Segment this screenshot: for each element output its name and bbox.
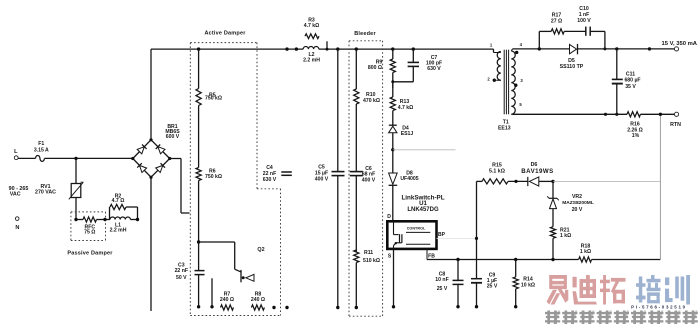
svg-text:Passive Damper: Passive Damper [67,251,113,257]
diode D4 ES1J (pointing up) [389,124,397,126]
svg-text:F1: F1 [38,141,44,147]
wire source pin down [393,249,395,307]
svg-text:750 kΩ: 750 kΩ [205,174,222,180]
svg-text:Bleeder: Bleeder [354,31,376,37]
capacitor C3 22nF 50V [195,270,205,272]
svg-text:D: D [387,214,391,220]
svg-text:1 kΩ: 1 kΩ [580,249,591,255]
capacitor C8 10nF 25V [456,258,459,261]
svg-text:510 kΩ: 510 kΩ [363,258,380,264]
node L/RV1 [74,157,77,160]
node RV1/RFC [74,218,77,221]
transistor Q2 [199,241,235,243]
wire Q2 emitter stub [211,278,213,307]
svg-text:EE13: EE13 [498,125,511,131]
wire main top rail (primary side) [151,48,303,50]
wire drain to transformer (faint) [393,149,456,151]
wire feedback to sense (faint) [553,180,660,182]
svg-text:VR2: VR2 [572,194,582,200]
svg-text:240 Ω: 240 Ω [251,297,265,303]
svg-text:4.7 kΩ: 4.7 kΩ [304,23,320,29]
bleeder dashed box [349,40,383,42]
svg-text:CONTROL: CONTROL [407,227,426,231]
svg-text:2.2 mH: 2.2 mH [110,228,127,234]
node rail/damper [197,47,200,50]
svg-text:SS110 TP: SS110 TP [560,64,584,70]
svg-text:1%: 1% [632,133,640,139]
svg-text:240 Ω: 240 Ω [220,297,234,303]
resistor R21 1k [552,209,554,227]
svg-text:2.2 mH: 2.2 mH [303,57,320,63]
terminal N [15,217,19,221]
capacitor C5 15uF 400V [336,47,339,50]
resistor R9 800 ohm [391,47,394,50]
svg-text:L: L [14,149,18,155]
resistor R3 4.7k (parallel L2) [305,34,319,39]
svg-text:U1: U1 [419,200,427,207]
svg-text:15 V, 350 mA: 15 V, 350 mA [661,41,697,47]
svg-text:10 kΩ: 10 kΩ [521,282,535,288]
svg-text:15 µF: 15 µF [315,170,328,176]
resistor R10 470k [355,47,358,50]
svg-text:25 V: 25 V [487,284,498,290]
zener VR2 MAZS8200ML [552,181,554,198]
wire sense riser [659,114,661,259]
capacitor C6 68nF 400V [355,104,357,171]
inductor L1 2.2 mH [105,219,110,221]
node damper out [136,218,139,221]
diode D8 UF4005 [392,150,394,173]
svg-text:R11: R11 [364,250,373,256]
terminal RTN [674,112,678,116]
inductor L2 2.2mH [303,46,319,49]
fuse F1 [36,155,45,161]
svg-text:630 V: 630 V [263,177,277,183]
node dots bottom damper [272,306,275,309]
svg-text:270 VAC: 270 VAC [35,189,56,195]
svg-text:BP: BP [438,232,446,238]
resistor R13 4.7k [392,82,394,97]
svg-text:4.7 kΩ: 4.7 kΩ [398,105,414,111]
svg-text:10 nF: 10 nF [435,277,448,283]
svg-text:630 V: 630 V [427,66,441,72]
svg-text:680 µF: 680 µF [624,77,640,83]
passive damper dashed box [71,211,106,213]
svg-text:1 kΩ: 1 kΩ [560,233,571,239]
svg-text:Active Damper: Active Damper [204,31,246,37]
node dots rail C4 [285,47,288,50]
svg-text:MAZS8200ML: MAZS8200ML [562,200,594,206]
resistor R7 240 ohm [221,305,234,310]
svg-text:LNK457DG: LNK457DG [407,207,439,213]
resistor R15 5.1k [477,180,483,182]
output terminal 15V 350mA [648,47,651,50]
svg-text:ES1J: ES1J [401,131,414,137]
resistor R11 510k [355,176,357,252]
svg-text:5.1 kΩ: 5.1 kΩ [489,169,505,175]
capacitor C7 100pF 630V [412,47,415,50]
node damper mid [198,181,200,271]
wire secondary top rail [513,48,570,50]
svg-text:4.7 Ω: 4.7 Ω [112,198,125,204]
watermark yiditui peixun [549,275,567,279]
svg-text:100 V: 100 V [577,18,591,24]
svg-text:VAC: VAC [10,192,21,198]
resistor R8 240 ohm [251,305,264,310]
svg-text:N: N [15,225,19,231]
svg-text:470 kΩ: 470 kΩ [363,98,380,104]
wire bridge right to damper [170,158,181,160]
wire secondary return [513,113,628,115]
svg-text:RTN: RTN [670,122,681,128]
svg-text:75 Ω: 75 Ω [84,230,95,236]
diode D5 SS110 [570,44,577,53]
svg-text:27 Ω: 27 Ω [551,19,562,25]
wire L input line [18,157,36,159]
svg-text:FB: FB [428,254,435,260]
diode D6 BAV19WS [527,177,529,186]
resistor R14 10k [514,258,517,261]
svg-text:22 nF: 22 nF [175,268,188,274]
resistor R6 750k [198,106,200,168]
resistor R2 4.7 ohm (parallel with L1) [109,207,111,220]
wire BP to bypass line (faint) [437,237,477,239]
snubber R17 27 / C10 1nF 100V [538,47,541,50]
node RFC out [103,218,106,221]
wire bridge bottom down [150,177,152,311]
resistor RFC 75 ohm [76,219,83,221]
resistor R5 750k [198,49,200,88]
svg-text:20 V: 20 V [572,207,583,213]
capacitor C4 22nF 630V annotation [281,171,292,173]
wire bridge top riser [150,49,152,140]
node drain/primary [391,148,394,151]
svg-text:3.15 A: 3.15 A [34,148,49,154]
bypass vertical line / capacitor C9 1uF 25V [476,181,478,278]
svg-text:400 V: 400 V [315,177,329,183]
resistor R16 2.26 ohm 1% [627,112,641,117]
svg-text:PI-5766-032510: PI-5766-032510 [631,304,687,309]
svg-text:750 kΩ: 750 kΩ [205,96,222,102]
svg-text:UF4005: UF4005 [400,176,418,182]
svg-text:Q2: Q2 [257,247,264,253]
varistor RV1 [75,158,77,183]
wire FB line [426,249,428,260]
svg-text:800 Ω: 800 Ω [368,65,382,71]
svg-text:35 V: 35 V [625,84,636,90]
bridge rectifier BR1 MB6S 600V [133,140,151,159]
transformer T1 EE13 [493,49,495,52]
resistor R18 1k [579,257,592,262]
svg-text:50 V: 50 V [176,275,187,281]
svg-text:600 V: 600 V [166,134,180,140]
svg-text:BAV19WS: BAV19WS [521,168,553,175]
svg-text:400 V: 400 V [362,177,376,183]
capacitor C11 680uF [615,47,618,50]
active damper dashed box [190,42,257,44]
svg-text:25 V: 25 V [437,286,448,292]
